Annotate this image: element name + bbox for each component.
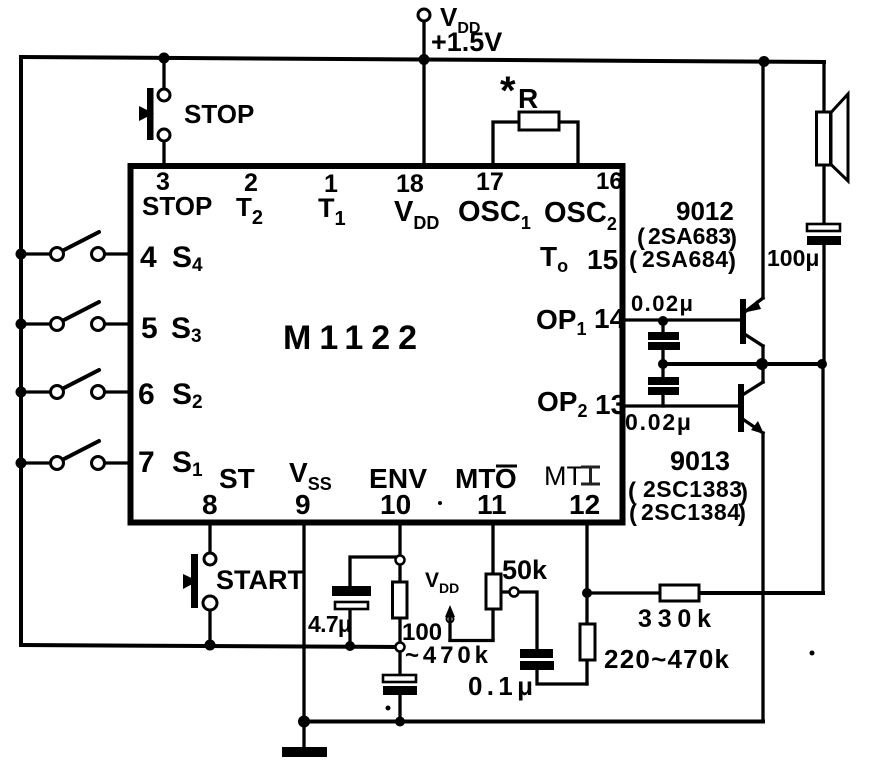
svg-text:*: *	[500, 69, 516, 113]
svg-text:(: (	[629, 500, 637, 527]
svg-text:ST: ST	[219, 463, 255, 494]
svg-text:STOP: STOP	[184, 99, 254, 129]
svg-text:17: 17	[476, 168, 504, 196]
svg-text:~470k: ~470k	[405, 642, 489, 669]
svg-text:OSC1: OSC1	[458, 196, 531, 233]
svg-text:6: 6	[138, 378, 155, 411]
svg-text:0.02μ: 0.02μ	[631, 291, 693, 316]
svg-text:11: 11	[477, 489, 507, 520]
svg-text:12: 12	[569, 489, 600, 520]
svg-text:): )	[738, 500, 746, 527]
svg-text:M1122: M1122	[283, 319, 425, 357]
svg-text:9012: 9012	[676, 196, 734, 226]
svg-text:9: 9	[295, 489, 311, 520]
svg-text:MT: MT	[544, 461, 583, 491]
svg-text:4.7μ: 4.7μ	[308, 611, 352, 637]
svg-text:): )	[728, 248, 736, 275]
svg-text:0.02μ: 0.02μ	[625, 409, 691, 435]
svg-text:(: (	[629, 247, 637, 274]
svg-text:13: 13	[595, 389, 626, 420]
svg-text:0.1μ: 0.1μ	[468, 671, 533, 701]
svg-text:+1.5V: +1.5V	[431, 27, 502, 57]
svg-text:STOP: STOP	[142, 191, 212, 221]
svg-text:7: 7	[138, 446, 155, 479]
svg-text:14: 14	[594, 303, 626, 334]
svg-text:2SA684: 2SA684	[642, 246, 728, 272]
svg-text:8: 8	[202, 489, 218, 520]
svg-text:4: 4	[140, 241, 157, 274]
svg-text:OSC2: OSC2	[544, 197, 617, 234]
svg-text:18: 18	[396, 170, 424, 198]
svg-text:9013: 9013	[670, 446, 730, 476]
svg-text:100μ: 100μ	[767, 245, 819, 271]
svg-text:5: 5	[141, 312, 158, 345]
svg-text:(: (	[637, 224, 645, 251]
svg-text:16: 16	[596, 168, 623, 195]
svg-text:2SC1384: 2SC1384	[641, 499, 740, 525]
svg-text:50k: 50k	[502, 555, 548, 585]
svg-text:R: R	[518, 83, 538, 114]
svg-text:START: START	[216, 565, 304, 595]
svg-text:220~470k: 220~470k	[604, 644, 730, 674]
svg-text:15: 15	[587, 244, 618, 275]
svg-text:10: 10	[380, 489, 411, 520]
